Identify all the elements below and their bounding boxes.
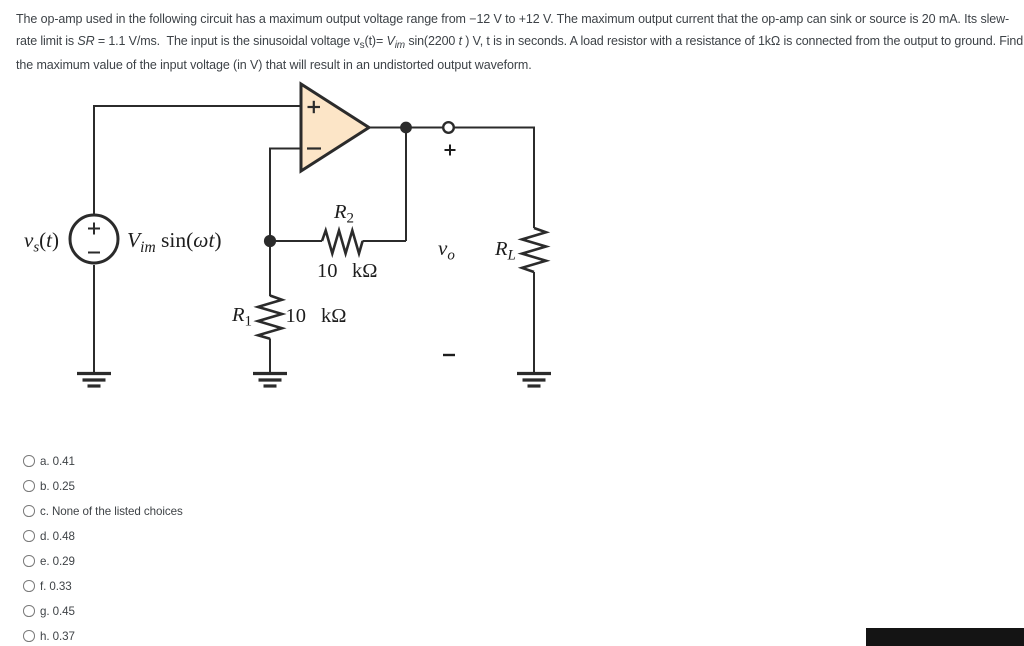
- source + mark: [88, 223, 100, 235]
- wire output node down to R2: [405, 128, 407, 242]
- ground below source: [77, 374, 111, 387]
- op-amp U1 triangle: [301, 84, 369, 171]
- wire R1 bottom to ground: [269, 339, 271, 373]
- ground below RL: [517, 374, 551, 387]
- wire op-amp output: [369, 127, 443, 129]
- ground below R1: [253, 374, 287, 387]
- op-amp - input mark: [307, 147, 321, 149]
- junction node dot at op-amp output: [400, 122, 412, 134]
- svg-text:Vim sin(ωt): Vim sin(ωt): [127, 228, 222, 256]
- wire -input to node: [270, 149, 301, 242]
- output terminal open circle: [443, 122, 454, 133]
- resistor RL zigzag: [522, 228, 546, 272]
- source - mark: [88, 252, 100, 254]
- svg-text:vo: vo: [438, 236, 455, 264]
- svg-text:R1: R1: [231, 304, 252, 330]
- wire open-circle to RL top: [454, 128, 534, 229]
- svg-text:R2: R2: [333, 201, 354, 227]
- minus sign at vo: [443, 354, 455, 356]
- wire node down to R1: [269, 241, 271, 296]
- svg-text:RL: RL: [494, 238, 516, 264]
- plus sign at vo: [445, 145, 456, 156]
- wire RL bottom to ground: [533, 272, 535, 372]
- junction node dot at R1/R2: [264, 235, 276, 247]
- svg-text:10kΩ: 10kΩ: [317, 260, 378, 282]
- wire source bottom to ground: [93, 265, 95, 372]
- svg-text:10kΩ: 10kΩ: [286, 305, 347, 327]
- resistor R2 zigzag: [322, 231, 363, 254]
- question text: [16, 8, 1024, 76]
- wire top from source to +input: [94, 106, 301, 214]
- wire R2 right to output branch: [363, 240, 407, 242]
- answer options: [0, 0, 1, 1]
- wire node to R2 left: [270, 240, 322, 242]
- resistor R1 zigzag: [258, 296, 282, 339]
- circuit schematic: [0, 0, 600, 420]
- source VS circle: [70, 215, 118, 263]
- svg-text:vs(t): vs(t): [24, 228, 59, 256]
- op-amp + input mark: [308, 101, 321, 113]
- black box bottom right: [866, 628, 1024, 646]
